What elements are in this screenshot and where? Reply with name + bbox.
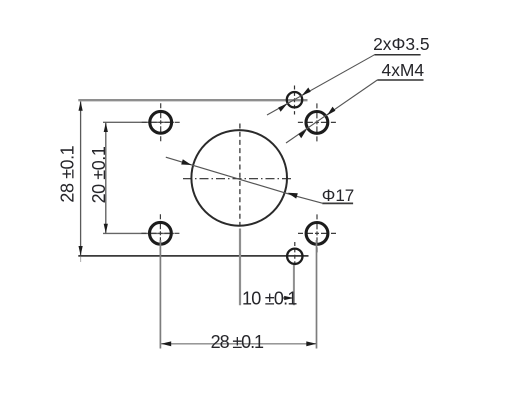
hole 3.5 bottom xyxy=(287,242,302,266)
dimension 20 vertical line xyxy=(104,122,108,233)
extension hole3.5-bottom vertical xyxy=(293,265,295,305)
hole M4 top-right xyxy=(298,103,336,141)
hole M4 bottom-left xyxy=(141,214,179,252)
svg-text:4xM4: 4xM4 xyxy=(382,60,425,80)
dimension 28 bottom line xyxy=(161,341,317,346)
label 4xM4 xyxy=(377,60,424,80)
svg-text:28 ±0.1: 28 ±0.1 xyxy=(211,332,264,352)
label 2xPhi3.5 xyxy=(373,34,429,55)
plate bottom edge xyxy=(78,255,308,257)
central circle centerline vertical xyxy=(239,124,241,227)
svg-text:10 ±0.1: 10 ±0.1 xyxy=(242,288,297,308)
dimension 28 vertical line xyxy=(79,101,83,262)
diameter leader line xyxy=(166,157,322,203)
central circle centerline horizontal xyxy=(183,178,291,180)
label phi17 xyxy=(322,186,354,205)
dimension 20 extension top xyxy=(103,121,174,123)
svg-text:28 ±0.1: 28 ±0.1 xyxy=(58,145,78,202)
extension holeM4-bottom-right vertical xyxy=(316,240,318,349)
svg-text:Φ17: Φ17 xyxy=(322,186,354,205)
extension circle-bottom vertical xyxy=(239,229,241,306)
hole 3.5 top xyxy=(287,86,302,115)
svg-text:20 ±0.1: 20 ±0.1 xyxy=(89,146,109,203)
svg-text:2xΦ3.5: 2xΦ3.5 xyxy=(373,34,429,54)
plate top edge xyxy=(78,99,307,101)
leader 2xPhi3.5 xyxy=(267,55,374,115)
dimension 10 arrow xyxy=(282,296,293,300)
hole M4 bottom-right xyxy=(298,214,336,252)
central circle xyxy=(191,130,287,226)
hole M4 top-left xyxy=(142,103,180,141)
leader 4xM4 xyxy=(286,80,377,143)
dimension 20 extension bottom xyxy=(103,232,174,234)
extension holeM4-bottom-left vertical xyxy=(159,240,161,349)
